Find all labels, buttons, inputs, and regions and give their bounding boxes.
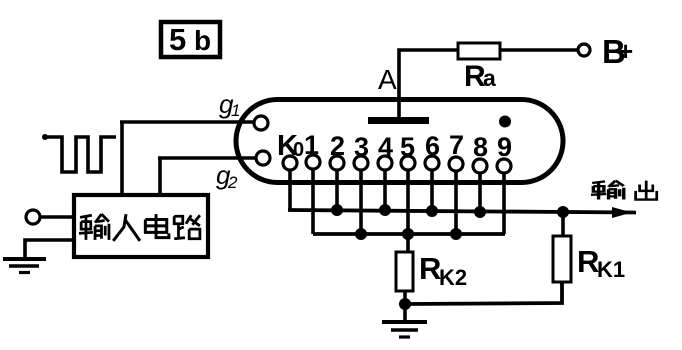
anode plate (368, 117, 429, 124)
svg-text:b: b (194, 25, 211, 56)
junction dot pin4 (379, 204, 391, 216)
ground symbol left (3, 259, 46, 273)
wire terminal to box (40, 215, 74, 219)
cathode pin 7 (449, 157, 463, 171)
junction dot RK2 bottom (399, 298, 411, 310)
input pulse waveform (42, 134, 48, 140)
label lu (input box) (174, 215, 200, 239)
lead 6 (430, 170, 434, 211)
terminal B+ (578, 44, 590, 56)
label g2 (216, 160, 238, 192)
svg-text:K2: K2 (439, 265, 467, 290)
wire box to ground (25, 240, 74, 259)
junction dot pin6 (426, 205, 438, 217)
cathode pin 9 (497, 159, 511, 173)
tube envelope (236, 100, 563, 183)
cathode pin 5 (401, 156, 415, 170)
junction dot pin5 (402, 228, 414, 240)
wire g2 horizontal (158, 156, 256, 160)
wire g1 horizontal (120, 120, 254, 124)
wire g2 vertical to input box (158, 158, 162, 196)
label g1 (219, 89, 240, 120)
wire RK1 top (561, 212, 565, 236)
resistor RK1 (553, 236, 571, 282)
junction dot pin3 (355, 228, 367, 240)
ground symbol bottom (382, 322, 427, 337)
label B+ (602, 33, 633, 70)
junction dot RK1 top (557, 206, 569, 218)
label shu (output) (591, 181, 624, 200)
svg-text:1: 1 (231, 101, 240, 120)
lead K0 (288, 170, 292, 211)
lead 3 (359, 170, 363, 234)
lead 2 (335, 170, 339, 211)
lead 9 (502, 173, 506, 234)
input terminal (26, 210, 40, 224)
cathode bus wire (313, 232, 505, 236)
cathode pin 1 (306, 155, 320, 169)
pin g1 (254, 116, 268, 130)
junction dot pin7 (450, 228, 462, 240)
wire to ground (403, 304, 407, 322)
resistor RK2 (396, 252, 413, 291)
wire Ra to B+ (500, 48, 578, 52)
wire RK2 bottom (403, 291, 407, 304)
label Ra (464, 60, 496, 93)
label dian (input box) (145, 214, 169, 238)
cathode pin 3 (354, 156, 368, 170)
lead 5 (406, 170, 410, 234)
output bus wire (288, 210, 636, 213)
cathode pin 4 (378, 156, 392, 170)
svg-text:K1: K1 (597, 257, 625, 282)
pin g2 (256, 151, 270, 165)
svg-text:2: 2 (227, 173, 238, 192)
svg-text:a: a (483, 65, 496, 91)
cathode pin 2 (330, 156, 344, 170)
lead 8 (478, 173, 482, 211)
label ru (input box) (113, 214, 140, 241)
lead 1 (311, 169, 315, 234)
wire bus to RK2 (406, 234, 410, 252)
svg-text:A: A (378, 64, 397, 95)
label RK1 (577, 244, 625, 282)
input circuit box (74, 195, 208, 257)
figure label 5b box (161, 22, 220, 57)
svg-text:5: 5 (169, 22, 186, 57)
cathode pin 6 (425, 156, 439, 170)
lead 4 (383, 170, 387, 211)
lead 7 (454, 171, 458, 234)
svg-text:+: + (618, 36, 633, 66)
bottom wire RK1 to RK2 (405, 282, 562, 304)
junction dot pin8 (474, 206, 486, 218)
label shu (input box) (79, 214, 109, 240)
cathode pin K0 (283, 156, 297, 170)
wire g1 vertical to input box (120, 122, 124, 196)
label K0 (277, 130, 304, 162)
resistor Ra (458, 43, 500, 59)
output arrowhead (612, 207, 632, 218)
junction dot pin2 (331, 204, 343, 216)
label RK2 (419, 251, 467, 290)
cathode pin 8 (473, 159, 487, 173)
anode wire (399, 50, 458, 119)
glow dot indicator (499, 116, 511, 128)
label chu (output) (636, 181, 657, 200)
